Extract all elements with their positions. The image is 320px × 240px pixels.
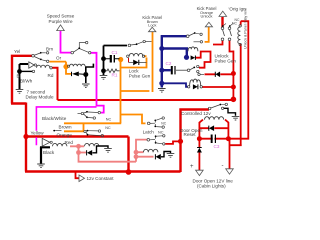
coil lock relay	[127, 55, 129, 57]
node reset relay right junction	[226, 136, 231, 141]
svg-text:NC: NC	[158, 130, 164, 134]
wire switch to module bus	[91, 53, 104, 113]
magenta input switch	[71, 51, 74, 54]
svg-text:-: -	[222, 163, 224, 169]
wire speed sense down	[61, 31, 72, 53]
diode navy output relay	[193, 84, 198, 89]
coil navy output relay	[190, 79, 201, 86]
wire 12v constant tap	[76, 172, 80, 179]
svg-text:Unlock & Panel relay wire: Unlock & Panel relay wire	[244, 8, 248, 49]
wire kick orange unlock drop	[205, 27, 209, 42]
brown stub	[53, 130, 55, 132]
diode unlock relay flyback	[191, 55, 196, 60]
latch switch B	[147, 139, 150, 142]
node navy bus C2 junction	[159, 68, 164, 73]
diode latch relay flyback	[156, 154, 161, 160]
wire mid horizontal to latch relay	[26, 137, 129, 173]
svg-text:Red: Red	[65, 140, 74, 145]
node latch relay lower junction	[134, 154, 139, 159]
black vertical C1	[104, 46, 128, 76]
coil delay module relay	[37, 65, 50, 68]
node bottom rail junction	[126, 169, 132, 175]
switch lock trigger	[128, 44, 131, 47]
svg-text:Brn: Brn	[46, 47, 54, 52]
navy top switch	[186, 35, 189, 38]
svg-text:Or: Or	[56, 56, 62, 61]
wire navy relay out y86.8	[202, 86, 233, 88]
svg-text:NC: NC	[161, 121, 166, 125]
diode bottom-left relay flyback	[87, 150, 92, 156]
7 second delay module black	[20, 64, 33, 89]
wire right rect	[199, 20, 248, 139]
svg-text:C3: C3	[214, 144, 220, 149]
row C2	[162, 69, 171, 71]
svg-text:Latch: Latch	[143, 130, 155, 135]
C labels pink	[112, 50, 220, 149]
node navy bus bottom junction	[159, 81, 164, 86]
wire minus branch down	[229, 139, 231, 169]
wire Rd output down to long rail	[52, 68, 234, 100]
svg-text:12v Constant: 12v Constant	[87, 176, 115, 181]
svg-text:Brown: Brown	[59, 125, 72, 130]
kick panel brown lock arrow	[149, 27, 156, 31]
node relay out junction	[231, 85, 236, 90]
svg-text:Bl/Wh: Bl/Wh	[20, 79, 33, 84]
node latch relay upper junction	[134, 150, 139, 155]
svg-text:Lock: Lock	[148, 23, 156, 28]
minus arrow down	[226, 169, 234, 174]
wire navy bus	[161, 35, 187, 87]
left red input switch	[32, 55, 35, 58]
wire lock loop	[121, 56, 147, 123]
wire lock loop to latch	[121, 115, 146, 124]
svg-text:Speed Sense: Speed Sense	[47, 14, 75, 19]
wire door open reset relay loop	[199, 120, 228, 139]
svg-text:Pulse Gen: Pulse Gen	[215, 59, 237, 64]
wire plus branch down	[198, 139, 200, 170]
svg-text:NC: NC	[105, 126, 111, 130]
svg-text:Yel: Yel	[14, 49, 20, 54]
node pink bus upper junction	[76, 144, 81, 149]
svg-text:NC: NC	[235, 18, 240, 22]
diode unlock output	[216, 72, 221, 78]
wire long orange to brown lock	[121, 32, 153, 92]
diode door open plus feed	[197, 148, 202, 153]
wire module orange lower	[64, 123, 84, 131]
wire controlled 12v riser	[181, 110, 210, 173]
svg-text:Controlled 12v: Controlled 12v	[181, 111, 211, 116]
wire left rail down	[11, 103, 26, 172]
wire unlock switch right leg to x233	[230, 41, 234, 101]
module switch sw2	[84, 130, 86, 132]
diode lock relay flyback	[128, 58, 130, 62]
node latch feed junction	[178, 139, 183, 144]
diode door open reset flyback	[209, 125, 214, 131]
svg-text:Purple Wire: Purple Wire	[49, 19, 73, 24]
row diode feed	[162, 49, 187, 57]
node left rail junction	[23, 134, 28, 139]
wire pink bus left	[70, 146, 136, 161]
black module ground	[40, 147, 50, 164]
wire pink latch cluster	[136, 140, 154, 162]
ground navy bus	[158, 89, 166, 93]
coil door open reset relay	[205, 117, 224, 120]
node navy bus top junction	[159, 46, 164, 51]
wire latch NO to riser	[165, 141, 180, 144]
wire unlock pulse out y74.5	[205, 73, 234, 75]
kick panel orange unlock arrow	[205, 22, 212, 27]
node unlock coil junction	[184, 55, 189, 60]
svg-text:Unlock: Unlock	[201, 13, 213, 18]
wire unlock pulse red loop	[196, 52, 211, 68]
svg-text:NC: NC	[232, 22, 237, 26]
svg-text:Yellow: Yellow	[31, 131, 45, 136]
row bottom coil	[162, 83, 188, 87]
svg-text:Pulse Gen: Pulse Gen	[129, 73, 151, 78]
wire Yel input left	[12, 56, 32, 104]
latch switch A	[147, 122, 150, 125]
svg-text:+: +	[190, 164, 194, 170]
buffer triangle U1	[29, 62, 34, 68]
node orange relay junction	[63, 64, 68, 69]
capacitor C1	[110, 55, 112, 63]
svg-text:NC: NC	[106, 118, 112, 122]
wire unlock switch left leg	[221, 17, 223, 27]
svg-text:Black: Black	[43, 150, 55, 155]
plus arrow down	[196, 170, 204, 175]
svg-text:R1: R1	[112, 73, 118, 78]
svg-text:Rd: Rd	[48, 73, 54, 78]
svg-text:(Cabin Lights): (Cabin Lights)	[197, 184, 226, 189]
svg-text:Black/White: Black/White	[42, 116, 67, 121]
orig ign arrow	[219, 11, 227, 16]
coil unlock panel relay	[239, 25, 241, 27]
svg-text:Reset: Reset	[184, 132, 197, 137]
node controlled 12v junction	[231, 97, 237, 103]
ground C1	[100, 76, 108, 80]
svg-text:C1: C1	[112, 50, 118, 55]
coil bottom-left relay	[85, 143, 99, 146]
svg-text:Delay Module: Delay Module	[26, 95, 55, 100]
module switch sw1	[78, 113, 82, 115]
node unlock out junction	[231, 71, 236, 76]
svg-text:Orange: Orange	[57, 132, 73, 137]
module box BlackWhite	[36, 107, 96, 145]
node pink bus lower junction	[76, 150, 81, 155]
capacitor C3	[211, 135, 213, 144]
node orange lock bus junction	[118, 57, 123, 62]
wire module out	[64, 122, 121, 124]
resistor R1	[106, 69, 120, 73]
node reset relay left junction	[197, 136, 202, 141]
lower contact for unlock out	[198, 73, 200, 75]
svg-text:C2: C2	[166, 61, 172, 66]
coil module red output	[53, 143, 67, 146]
wire bottom 12v rail	[25, 170, 181, 172]
wire Or to relay	[49, 62, 71, 74]
speed sense arrow	[57, 25, 65, 31]
ground 7sec	[16, 90, 24, 94]
